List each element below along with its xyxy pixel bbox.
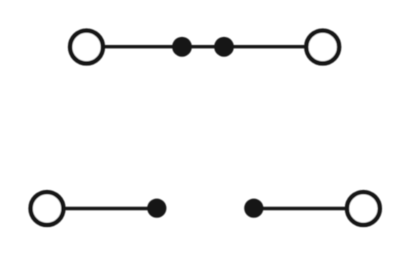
clamp point upper-left (open circle) <box>70 31 103 64</box>
node dot lower-right <box>244 199 263 218</box>
clamp point lower-right (open circle) <box>347 192 380 225</box>
wire lower-right <box>254 207 346 210</box>
node dot lower-left <box>147 199 166 218</box>
clamp point upper-right (open circle) <box>306 31 339 64</box>
clamp point lower-left (open circle) <box>31 192 64 225</box>
wire upper level bridge <box>103 45 306 48</box>
wire lower-left <box>64 207 157 210</box>
bridge node dot 2 (upper level) <box>214 37 234 57</box>
bridge node dot 1 (upper level) <box>172 37 192 57</box>
